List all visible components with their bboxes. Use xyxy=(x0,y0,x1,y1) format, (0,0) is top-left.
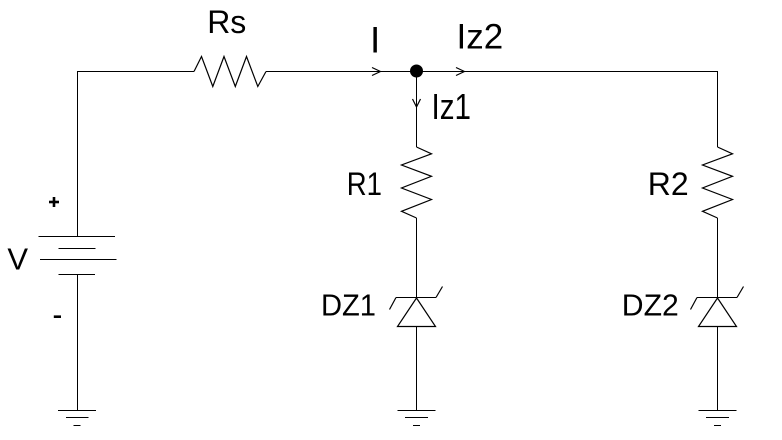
svg-text:R2: R2 xyxy=(648,166,689,202)
ground (right) xyxy=(699,411,737,426)
wire: DZ2 to right ground xyxy=(717,327,719,411)
wire: node down to R1 xyxy=(416,72,418,148)
svg-text:Iz2: Iz2 xyxy=(457,18,504,57)
arrow Iz2 (current to right branch) xyxy=(456,68,465,76)
svg-text:R1: R1 xyxy=(347,166,382,202)
wire: battery negative to left ground xyxy=(77,275,79,411)
wire: R2 to DZ2 xyxy=(717,218,719,298)
label + (battery positive) xyxy=(49,197,59,207)
svg-text:Rs: Rs xyxy=(207,4,246,40)
ground (middle) xyxy=(398,411,436,426)
battery V (source) xyxy=(39,237,117,275)
svg-text:V: V xyxy=(7,242,28,277)
node junction (dot) xyxy=(410,65,423,78)
zener diode DZ2 xyxy=(691,287,744,327)
svg-text:DZ1: DZ1 xyxy=(321,287,376,322)
wire: node to top of R2 xyxy=(417,72,718,148)
wire: battery positive up and right to Rs xyxy=(78,72,195,237)
wire: DZ1 to middle ground xyxy=(416,327,418,411)
resistor R1 xyxy=(402,147,432,218)
zener diode DZ1 xyxy=(390,287,443,327)
arrow Iz1 (current down middle branch) xyxy=(413,99,421,107)
wire: Rs to node xyxy=(266,71,417,73)
svg-text:Iz1: Iz1 xyxy=(432,86,472,127)
label - (battery negative) xyxy=(54,315,61,318)
svg-text:DZ2: DZ2 xyxy=(622,288,679,323)
wire: R1 to DZ1 xyxy=(416,218,418,298)
arrow I (current into node) xyxy=(372,68,381,76)
svg-text:I: I xyxy=(370,19,380,60)
resistor R2 xyxy=(703,147,733,218)
resistor Rs xyxy=(194,57,266,87)
ground (left) xyxy=(58,411,96,426)
